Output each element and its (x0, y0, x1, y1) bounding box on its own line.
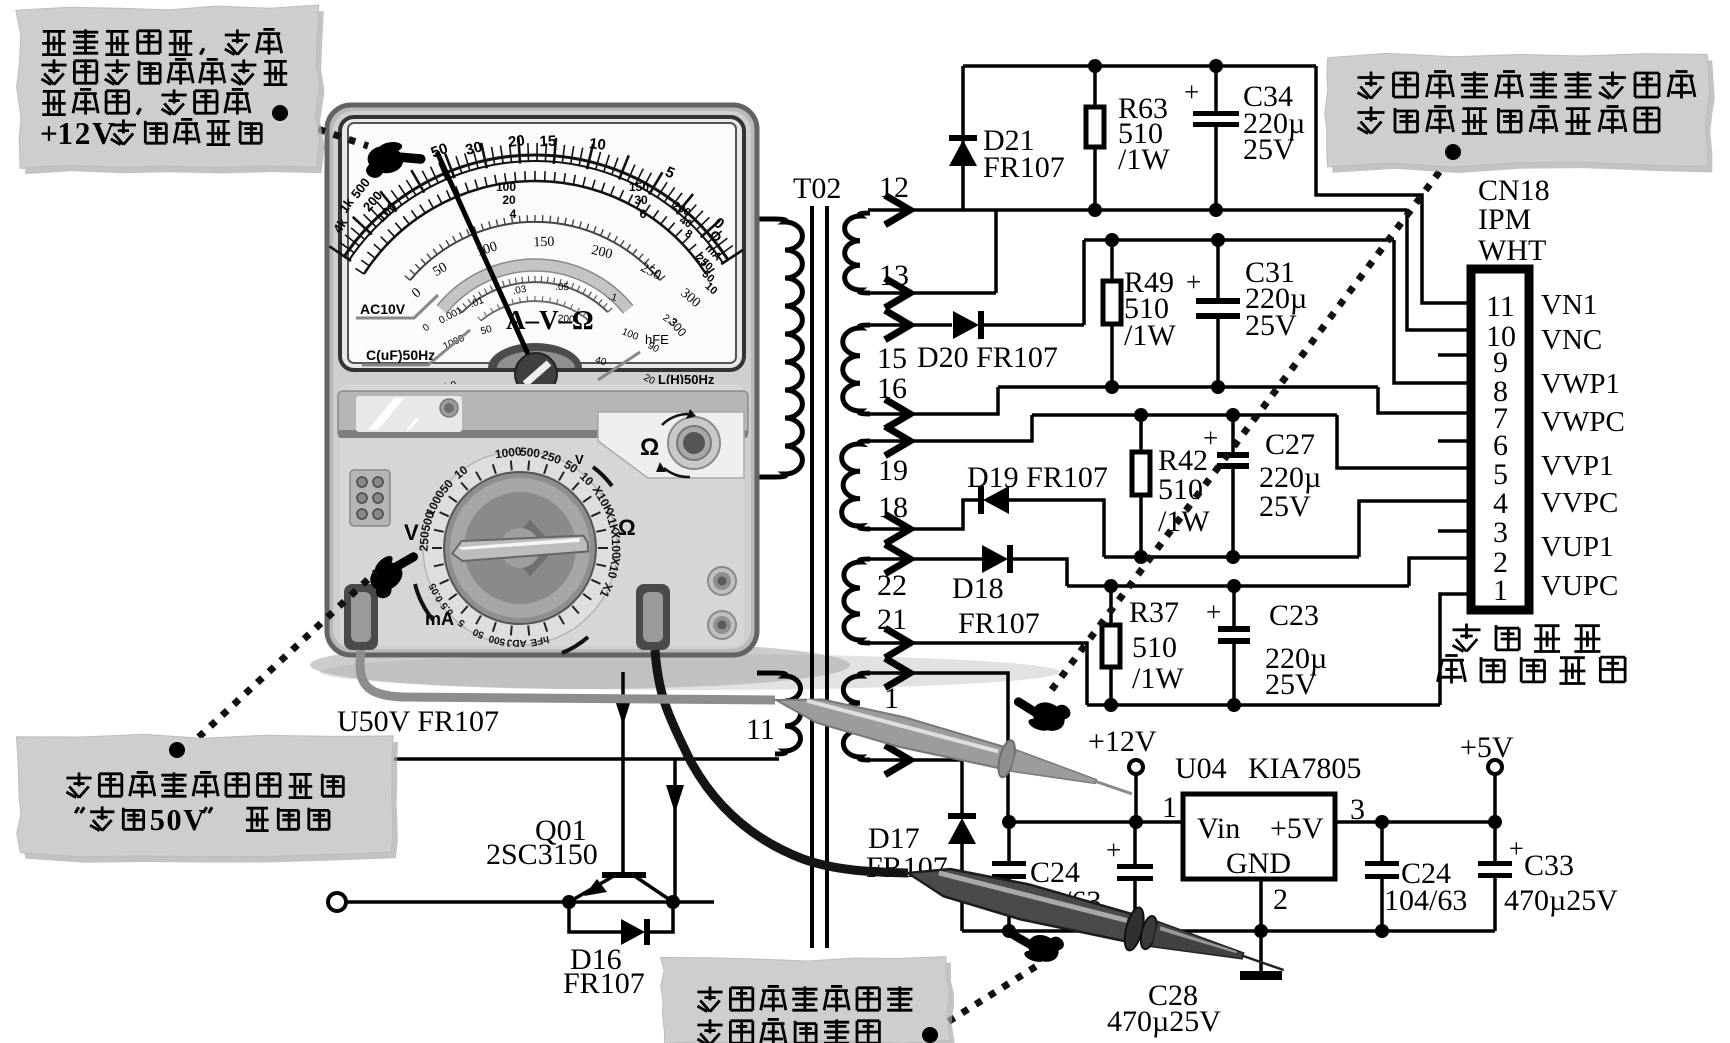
black probe (903, 852, 1290, 988)
wire tap21 (868, 643, 1087, 705)
transformer secondary winding 12-13 (845, 213, 870, 293)
label 1 (884, 682, 899, 715)
+5V terminal (1488, 760, 1502, 822)
svg-text:20: 20 (502, 193, 516, 207)
wire ground rail (962, 929, 1495, 933)
callout text line4 (40, 116, 261, 151)
diode D17 (948, 816, 976, 931)
callout text line10 (697, 1019, 879, 1043)
label 21 (877, 603, 907, 636)
svg-text:18: 18 (878, 491, 908, 524)
svg-text:+: + (1186, 267, 1201, 297)
resistor R63 (1086, 66, 1104, 210)
label 变频电路低压供电端 (1438, 624, 1626, 684)
junction dots Q01 (562, 895, 680, 909)
svg-text:30: 30 (634, 193, 648, 207)
svg-text:C27: C27 (1265, 428, 1315, 461)
capacitor C24 input (992, 822, 1026, 931)
label T02 (793, 172, 841, 205)
label U50V FR107 (337, 705, 499, 738)
diode D19 (981, 486, 1009, 514)
svg-text:FR107: FR107 (958, 607, 1040, 640)
capacitor C24 output (1365, 822, 1399, 931)
callout text line8 (75, 803, 329, 837)
svg-text:11: 11 (1486, 290, 1515, 323)
wire tap13 (868, 210, 996, 293)
connector pin numbers (1486, 290, 1516, 607)
svg-text:6: 6 (640, 207, 647, 221)
svg-text:470µ25V: 470µ25V (1504, 884, 1618, 917)
regulator U04 box (1183, 794, 1335, 879)
capacitor C27 (1217, 415, 1249, 557)
diode D16 (621, 919, 647, 945)
svg-text:20: 20 (507, 132, 526, 151)
svg-text:16: 16 (877, 372, 907, 405)
hand at ground node (1003, 915, 1066, 972)
label D18 FR107 (952, 572, 1040, 640)
label C24 output (1384, 857, 1467, 917)
svg-text:D20 FR107: D20 FR107 (917, 341, 1058, 374)
wire 11 (394, 757, 779, 761)
svg-text:C33: C33 (1524, 849, 1574, 882)
svg-text:VVPC: VVPC (1541, 487, 1618, 519)
label 11 (746, 713, 775, 746)
svg-text:U50V FR107: U50V FR107 (337, 705, 499, 738)
transformer secondary winding 1-11 (843, 673, 870, 760)
wire tap15 to D20 (868, 323, 952, 327)
svg-text:22: 22 (877, 569, 907, 602)
callout box bottom (660, 957, 955, 1043)
svg-text:VUPC: VUPC (1541, 570, 1618, 602)
svg-text:VUP1: VUP1 (1541, 531, 1614, 563)
transistor Q01 (569, 875, 673, 902)
label 15 (877, 342, 907, 375)
label +5V (1460, 731, 1514, 764)
svg-text:10: 10 (588, 135, 606, 154)
capacitor C33 (1478, 822, 1512, 931)
label C27 220u 25V (1259, 428, 1321, 523)
callout box mid-left (16, 734, 398, 862)
svg-text:19: 19 (878, 454, 908, 487)
svg-text:0: 0 (167, 803, 182, 837)
label C31 220u 25V (1245, 256, 1307, 342)
wire D20 out (981, 240, 1084, 325)
wire D19 out (1009, 500, 1104, 557)
svg-text:GND: GND (1226, 847, 1291, 880)
svg-text:15: 15 (539, 133, 556, 151)
transformer primary winding (757, 219, 802, 477)
junction dots section1 (1088, 59, 1223, 217)
tap 13 arrow (888, 280, 910, 306)
callout text line2 (41, 59, 287, 84)
callout text line5 (1358, 72, 1696, 99)
diode D18 (982, 545, 1010, 573)
svg-text:KIA7805: KIA7805 (1248, 752, 1361, 785)
capacitor C34 (1193, 66, 1239, 210)
wire rail3 to pin5 (1337, 415, 1471, 468)
svg-text:C(uF)50Hz: C(uF)50Hz (366, 347, 435, 363)
callout text line9 (697, 986, 912, 1011)
junction dots section3 (1134, 408, 1240, 564)
capacitor C31 (1196, 240, 1240, 387)
diode D21 (949, 66, 977, 210)
dotted line callout3 to dial (187, 572, 376, 748)
svg-text:VWP1: VWP1 (1541, 368, 1620, 400)
svg-text:FR107: FR107 (563, 967, 645, 1000)
callout text line1 (42, 29, 281, 54)
callout text line6 (1358, 107, 1660, 134)
svg-text:25V: 25V (1259, 490, 1311, 523)
wire rail2 to pin8 (1394, 240, 1471, 383)
hand at range dial (362, 541, 429, 601)
wire rail4b to pin1 (1440, 594, 1471, 705)
wire rail4 top (1067, 584, 1409, 588)
transformer secondary winding 19-18 (842, 441, 870, 529)
dotted line callout1 to needle (288, 119, 368, 146)
pin 3 stub (1438, 529, 1471, 533)
svg-text:AC10V: AC10V (360, 301, 406, 317)
input terminal circle (328, 893, 346, 911)
ground symbol (1240, 931, 1282, 980)
callout box top-right (1325, 53, 1715, 173)
wire tap19 (868, 415, 1032, 441)
wire rail210 to pin10 (1407, 210, 1471, 330)
svg-text:+: + (1184, 77, 1199, 107)
wire tap11r to D17 (868, 760, 962, 818)
collector vertical arrow (666, 785, 684, 813)
pin 9 stub (1438, 353, 1471, 357)
svg-text:WHT: WHT (1478, 234, 1546, 267)
resistor R42 (1132, 415, 1150, 557)
label C28 470u25V (1107, 979, 1221, 1038)
label 12 (879, 171, 909, 204)
svg-text:510: 510 (1132, 631, 1177, 664)
svg-text:.05: .05 (555, 282, 570, 293)
label C28 plus (1106, 835, 1121, 865)
tap 18 arrow (888, 516, 910, 542)
svg-text:470µ25V: 470µ25V (1107, 1005, 1221, 1038)
svg-text:4: 4 (510, 207, 517, 221)
label D16 FR107 (563, 943, 645, 1000)
pin 6 stub (1438, 439, 1471, 443)
label 16 (877, 372, 907, 405)
callout text line7 (66, 772, 343, 797)
wire rail3 bottom (1104, 555, 1359, 559)
label D19 FR107 (967, 461, 1108, 494)
svg-text:V: V (404, 520, 419, 545)
svg-text:11: 11 (746, 713, 775, 746)
svg-text:D18: D18 (952, 572, 1004, 605)
svg-text:U04: U04 (1175, 752, 1227, 785)
diode D20 (953, 311, 981, 339)
label R49 510 /1W (1124, 266, 1201, 352)
svg-text:3: 3 (1493, 516, 1508, 549)
svg-text:VVP1: VVP1 (1541, 450, 1614, 482)
svg-text:1: 1 (57, 116, 73, 151)
tap 1 arrow (888, 660, 910, 686)
svg-text:FR107: FR107 (983, 151, 1065, 184)
svg-text:V: V (575, 452, 584, 467)
label 22 (877, 569, 907, 602)
multimeter (327, 105, 757, 655)
svg-text:V: V (92, 116, 115, 151)
label R42 510 /1W (1158, 444, 1210, 538)
svg-text:Ω: Ω (640, 434, 659, 461)
svg-text:510: 510 (1158, 473, 1203, 506)
svg-text:+5V: +5V (1270, 812, 1324, 845)
svg-text:250: 250 (417, 531, 432, 552)
svg-text:+: + (1509, 834, 1524, 863)
svg-text:Vin: Vin (1197, 812, 1240, 845)
label C34 plus (1184, 77, 1199, 107)
+12V terminal (1129, 760, 1143, 822)
svg-text:12: 12 (879, 171, 909, 204)
label U04 pin3 (1350, 793, 1365, 826)
wire rail3b to pin4 (1359, 501, 1471, 557)
label C24 input (1018, 856, 1101, 918)
label C33 (1504, 834, 1618, 917)
tap 22 arrow (888, 546, 910, 572)
svg-text:/1W: /1W (1118, 143, 1170, 176)
resistor R37 (1102, 586, 1120, 705)
svg-text:D19 FR107: D19 FR107 (967, 461, 1108, 494)
capacitor C23 (1218, 586, 1250, 705)
svg-text:+: + (1203, 423, 1218, 453)
label C27 plus (1203, 423, 1218, 453)
svg-text:1: 1 (1493, 574, 1508, 607)
label U04 KIA7805 (1175, 752, 1361, 785)
gray probe (771, 682, 1137, 810)
label U04 pin2 (1273, 883, 1288, 916)
svg-text:21: 21 (877, 603, 907, 636)
svg-text:VN1: VN1 (1541, 289, 1597, 321)
callout box top-left (16, 5, 325, 174)
tap 15 arrow (888, 312, 910, 338)
dotted line callout4 to ground (935, 962, 1043, 1030)
label 18 (878, 491, 908, 524)
wire rail2 bottom (998, 385, 1378, 389)
svg-text:150: 150 (533, 235, 555, 251)
wire rail4 to pin2 (1409, 558, 1471, 586)
label Q01 2SC3150 (486, 814, 598, 871)
hand at +12V node (1006, 681, 1073, 742)
wire 12V rail (1008, 820, 1183, 824)
wire rail2b to pin7 (1378, 387, 1471, 413)
label C34 220u 25V (1243, 80, 1305, 166)
transformer secondary winding 15-16 (843, 325, 870, 414)
label C23 plus (1206, 597, 1221, 627)
resistor R49 (1103, 240, 1121, 387)
transformer primary lower winding (757, 673, 801, 754)
black test lead cable (655, 650, 908, 873)
base lead arrow (614, 697, 632, 725)
label D17 FR107 (866, 822, 948, 884)
svg-text:500: 500 (519, 445, 541, 461)
label D21 FR107 (983, 124, 1065, 184)
svg-text:VNC: VNC (1541, 324, 1602, 356)
wire top rail +12V out (963, 64, 1316, 68)
svg-text:25V: 25V (1243, 133, 1295, 166)
wire Q01 main (346, 900, 714, 904)
tap 12 arrow (888, 197, 910, 223)
wire top rail to pin11 (1316, 66, 1471, 303)
wire rail4 bottom (1087, 703, 1440, 707)
svg-text:C23: C23 (1269, 599, 1319, 632)
label CN18 IPM WHT (1478, 174, 1550, 267)
svg-text:+: + (40, 116, 58, 151)
svg-text:IPM: IPM (1478, 203, 1531, 236)
svg-text:1: 1 (1162, 791, 1177, 824)
wire D18 out (1010, 559, 1067, 586)
svg-text:VWPC: VWPC (1541, 406, 1625, 438)
tap 11r arrow (888, 747, 910, 773)
dotted line callout2 to +12V node (1050, 159, 1449, 692)
meter ground shadow (310, 641, 1060, 690)
capacitor C28 (1117, 822, 1153, 931)
label R37 510 /1W (1129, 596, 1184, 695)
junction dots section2 (1105, 233, 1225, 394)
svg-text:5: 5 (150, 803, 165, 837)
junction dots section4 (1104, 579, 1241, 712)
diode D16 loop (569, 902, 673, 932)
svg-text:25V: 25V (1265, 668, 1317, 701)
connector signal labels (1541, 289, 1625, 602)
svg-text:+5V: +5V (1460, 731, 1514, 764)
svg-text:+: + (1106, 835, 1121, 865)
label 19 (878, 454, 908, 487)
svg-text:hFE: hFE (645, 332, 669, 347)
svg-text:+: + (1206, 597, 1221, 627)
transformer T02 core (812, 206, 827, 948)
connector CN18 body (1471, 269, 1529, 610)
svg-text:Ω: Ω (618, 515, 636, 540)
wire U04 pin2 down (1259, 879, 1263, 931)
label U04 pin1 (1162, 791, 1177, 824)
svg-text:2: 2 (1273, 883, 1288, 916)
label Vin +5V GND (1197, 812, 1324, 880)
red(gray) test lead cable (360, 650, 775, 700)
svg-text:+12V: +12V (1088, 725, 1157, 758)
wire rail2 top (1084, 238, 1394, 242)
svg-text:1: 1 (884, 682, 899, 715)
label R63 510 /1W (1118, 92, 1170, 176)
svg-text:104/63: 104/63 (1384, 884, 1467, 917)
svg-text:R37: R37 (1129, 596, 1179, 629)
wire base lead (621, 672, 625, 872)
svg-text:25V: 25V (1245, 309, 1297, 342)
transformer secondary winding 22-21 (844, 559, 870, 643)
svg-text:ADJ: ADJ (507, 637, 527, 649)
wire tap1 (868, 673, 1008, 822)
svg-text:15: 15 (877, 342, 907, 375)
wire tap22 to D18 (868, 557, 982, 561)
svg-text:/1W: /1W (1124, 319, 1176, 352)
wire collector vertical (673, 759, 677, 902)
tap 21 arrow (888, 630, 910, 656)
wire tap18 to D19 (868, 500, 981, 529)
svg-text:T02: T02 (793, 172, 841, 205)
tap 16 arrow (888, 401, 910, 427)
svg-text:V: V (183, 803, 205, 837)
svg-text:2: 2 (75, 116, 91, 151)
svg-text:100: 100 (496, 180, 516, 194)
wire tap16 (868, 387, 998, 414)
wire U04 out rail (1335, 820, 1495, 824)
hand at needle (365, 138, 426, 182)
label +12V (1088, 725, 1157, 758)
junction dots section5 (1002, 815, 1502, 938)
tap 19 arrow (888, 428, 910, 454)
label D20 FR107 (917, 341, 1058, 374)
wire tap12 bottom rail (868, 208, 1407, 212)
svg-text:13: 13 (879, 259, 909, 292)
callout text line3 (42, 89, 250, 114)
label C23 220u 25V (1265, 599, 1327, 701)
callout dots (169, 105, 1461, 1043)
svg-text:2SC3150: 2SC3150 (486, 838, 598, 871)
svg-text:150: 150 (629, 180, 649, 194)
label 13 (879, 259, 909, 292)
svg-text:/1W: /1W (1132, 662, 1184, 695)
wire rail3 top (1032, 413, 1337, 417)
